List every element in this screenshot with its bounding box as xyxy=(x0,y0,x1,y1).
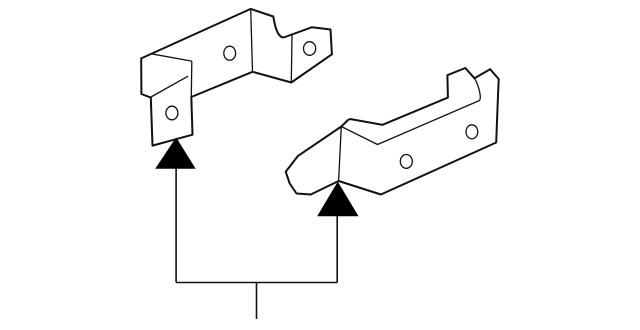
left bracket web hole xyxy=(224,46,236,60)
right callout line xyxy=(336,216,338,283)
right bracket web hole xyxy=(400,155,412,169)
right bracket web top fold xyxy=(341,101,479,145)
right bracket flange hole xyxy=(466,125,478,139)
left bracket left face fold xyxy=(151,54,192,61)
right bracket notch fold curve xyxy=(474,78,480,100)
left bracket flap crease xyxy=(151,76,188,97)
left callout line xyxy=(175,168,177,282)
left bracket tab fold xyxy=(290,35,293,83)
left bracket flap hole xyxy=(166,106,178,120)
left arrow xyxy=(156,138,195,168)
right bracket beak fold xyxy=(339,127,342,182)
left bracket web left fold xyxy=(190,61,193,97)
left bracket tab hole xyxy=(304,42,316,56)
left bracket outline xyxy=(141,9,332,146)
left bracket apex fold xyxy=(251,9,253,72)
connector line xyxy=(176,282,337,284)
right bracket outline xyxy=(286,68,499,195)
stem line xyxy=(256,283,258,320)
right arrow xyxy=(318,183,358,216)
